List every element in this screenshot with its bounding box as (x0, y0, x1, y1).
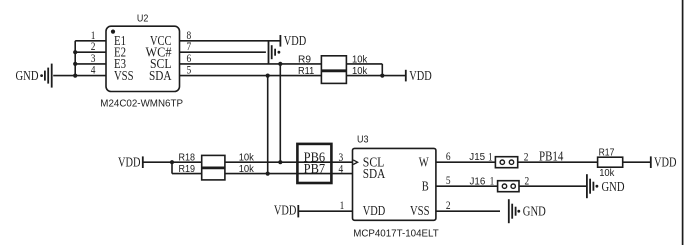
svg-text:R9: R9 (298, 54, 311, 65)
svg-text:VDD: VDD (284, 33, 307, 48)
svg-text:GND: GND (16, 68, 39, 83)
svg-text:10k: 10k (352, 54, 368, 65)
svg-text:1: 1 (340, 198, 345, 212)
svg-text:VDD: VDD (363, 203, 386, 218)
svg-text:R11: R11 (298, 66, 315, 77)
svg-text:U3: U3 (357, 135, 369, 146)
svg-text:PB7: PB7 (304, 161, 326, 176)
svg-text:2: 2 (525, 174, 530, 188)
svg-text:MCP4017T-104ELT: MCP4017T-104ELT (353, 228, 439, 239)
svg-text:SDA: SDA (149, 68, 172, 83)
svg-text:VDD: VDD (274, 203, 297, 218)
svg-text:1: 1 (490, 174, 495, 188)
svg-text:B: B (422, 178, 429, 193)
svg-text:U2: U2 (137, 14, 149, 25)
svg-text:SDA: SDA (363, 166, 386, 181)
svg-text:10k: 10k (599, 168, 615, 179)
svg-text:VDD: VDD (118, 154, 141, 169)
svg-text:PB14: PB14 (539, 149, 563, 164)
svg-text:GND: GND (523, 203, 546, 218)
svg-text:VDD: VDD (654, 154, 677, 169)
svg-text:VSS: VSS (410, 203, 430, 218)
svg-text:10k: 10k (352, 66, 368, 77)
svg-text:R18: R18 (179, 153, 196, 164)
svg-text:R17: R17 (599, 148, 615, 159)
svg-text:10k: 10k (239, 164, 255, 175)
svg-text:6: 6 (446, 149, 451, 163)
svg-text:2: 2 (524, 150, 529, 164)
svg-text:J16: J16 (470, 176, 486, 187)
svg-text:5: 5 (187, 63, 192, 77)
svg-text:W: W (419, 154, 429, 169)
svg-text:10k: 10k (239, 153, 255, 164)
svg-text:5: 5 (446, 173, 451, 187)
svg-text:4: 4 (339, 162, 344, 176)
svg-text:J15: J15 (469, 152, 485, 163)
svg-text:VSS: VSS (114, 68, 134, 83)
svg-text:GND: GND (602, 179, 625, 194)
svg-text:2: 2 (446, 198, 451, 212)
svg-text:M24C02-WMN6TP: M24C02-WMN6TP (100, 99, 183, 110)
svg-text:4: 4 (91, 63, 96, 77)
svg-text:VDD: VDD (409, 68, 432, 83)
svg-text:1: 1 (488, 150, 493, 164)
svg-text:R19: R19 (179, 164, 196, 175)
